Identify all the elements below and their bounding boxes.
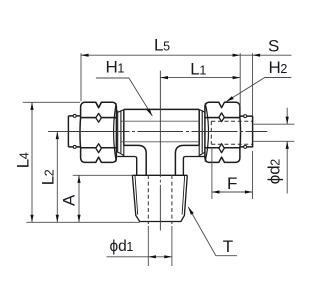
F dimension line [212,191,253,193]
H2 leader [226,78,291,102]
svg-text:S: S [268,37,279,56]
phi-d1 left arrow [148,255,156,258]
taper thread crest second lines [135,175,185,214]
svg-text:A: A [60,194,79,206]
L4 top extension [23,101,80,103]
L2 top arrow [56,132,59,140]
arrowheads [30,54,288,259]
right nut bottom diamond [219,144,224,153]
left nut bottom diamond [96,144,102,153]
left nut face chamfer arc [114,103,117,161]
L2 dimension line [56,132,58,223]
hidden tube end vertical [210,121,212,144]
L5 extension line left [80,53,82,101]
taper thread outline [132,175,187,221]
H2 arrowhead [226,96,234,102]
right nut face chamfer arc [205,103,208,161]
L4 bottom arrow [30,215,33,223]
thread root hidden line right [171,175,173,224]
phi-d2 extension top [254,123,295,125]
right collar (ferrule interface) [199,110,205,157]
L2 top extension [48,131,68,133]
right nut outline [205,102,241,162]
left stub circle bottom [73,145,76,148]
S extension line right / stub end [252,53,254,115]
left nut top diamond [96,113,102,122]
L5 left arrow [81,54,89,57]
H1 leader [96,78,152,116]
right stub circle top [244,115,247,118]
right stub circle bottom [244,145,247,148]
L5 right / S left arrow [233,54,241,57]
T leader [188,207,237,256]
svg-text:T: T [223,237,233,256]
L4 top arrow [30,102,33,110]
T arrowhead [188,207,194,215]
svg-text:F: F [227,174,237,193]
A dimension line [78,175,80,222]
F extension left [211,148,213,200]
right nut top diamond [219,113,224,122]
left stub circle top [73,114,76,117]
svg-text:H1: H1 [106,58,125,77]
phi-d2 dimension line [286,108,288,194]
L2 bottom arrow [56,215,59,223]
S right arrow [253,54,261,57]
body outline [124,109,199,175]
svg-text:ϕd2: ϕd2 [265,159,284,185]
A top arrow [77,175,80,183]
thread root hidden line left [147,175,149,224]
left tube stub [68,116,83,147]
svg-text:L5: L5 [154,36,170,55]
hidden tube top line [211,120,252,122]
phi-d1 extension left [147,226,149,266]
A top extension [73,174,133,176]
phi-d1 right arrow [164,255,172,258]
L1 right arrow [233,76,241,79]
L1 dimension line [160,77,240,79]
phi-d2 bottom arrow [286,141,289,149]
body bore lines [121,121,199,142]
branch washer step line left [117,156,135,158]
svg-text:L2: L2 [39,169,58,185]
F extension right [252,151,254,199]
left nut top V-notch [96,102,102,107]
A bottom arrow [77,215,80,223]
svg-text:L4: L4 [14,152,33,168]
right stub (hose end) [240,116,252,147]
phi-d1 extension right [171,226,173,266]
phi-d2 top arrow [286,117,289,125]
branch square flange right edge [183,157,185,176]
svg-text:L1: L1 [190,60,206,79]
hidden tube bottom line [211,143,252,145]
L1 left arrow [160,76,168,79]
phi-d1 dimension + leader [107,256,172,258]
H1 arrowhead [147,108,153,116]
branch washer step line right [185,156,206,158]
horizontal centerline [48,131,267,133]
taper thread top line [132,174,187,176]
phi-d2 extension bottom [254,140,295,142]
baseline [26,221,139,223]
F left arrow [212,190,220,193]
left nut outline [80,102,116,162]
svg-text:ϕd1: ϕd1 [110,238,134,255]
left collar (ferrule interface) [118,110,124,157]
F right arrow [245,190,253,193]
L5+S dimension line [81,54,292,56]
L5/S/L1 extension line at nut right [239,53,241,115]
svg-text:H2: H2 [269,58,288,77]
vertical centerline (branch axis, also L1 extension) [159,71,161,231]
L4 dimension line [31,102,33,222]
branch square flange left edge [135,157,137,176]
